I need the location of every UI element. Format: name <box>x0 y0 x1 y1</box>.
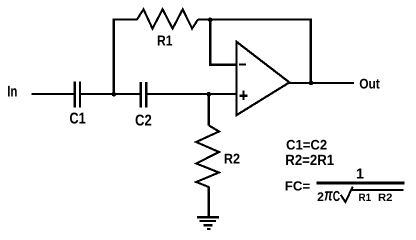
svg-text:C: C <box>333 189 341 205</box>
capacitor C1 <box>75 82 80 108</box>
wire C2 to op-amp + input <box>147 93 237 95</box>
fraction bar <box>317 182 405 185</box>
node A junction dot <box>112 92 117 97</box>
wire R2 to ground <box>208 187 210 218</box>
wire top rail right segment <box>198 19 312 21</box>
svg-text:2: 2 <box>317 190 324 204</box>
svg-text:In: In <box>7 83 17 100</box>
svg-text:FC=: FC= <box>285 179 311 194</box>
svg-text:R2=2R1: R2=2R1 <box>285 153 334 169</box>
svg-text:C2: C2 <box>135 112 152 129</box>
resistor R1 <box>137 9 198 28</box>
node D junction dot (output) <box>309 81 314 86</box>
wire into op-amp - input <box>209 64 236 66</box>
svg-text:C1=C2: C1=C2 <box>286 137 327 153</box>
op-amp U1 <box>236 42 289 115</box>
svg-text:Out: Out <box>359 77 380 93</box>
wire node C down to inverting input <box>209 20 211 65</box>
node B junction dot <box>207 92 212 97</box>
ground <box>197 217 219 229</box>
wire node A up to top rail <box>113 19 115 95</box>
op-amp inverting pin marker <box>239 63 246 65</box>
svg-text:R1: R1 <box>359 192 372 204</box>
svg-text:R2: R2 <box>224 151 240 167</box>
wire output <box>289 82 354 84</box>
op-amp non-inverting pin marker <box>239 91 247 100</box>
wire In to C1 <box>32 93 74 95</box>
capacitor C2 <box>141 82 146 107</box>
wire top rail left segment <box>113 19 138 21</box>
wire C1 to C2 <box>81 93 141 95</box>
svg-text:1: 1 <box>356 166 364 182</box>
wire node B down to R2 <box>208 94 210 126</box>
svg-text:R2: R2 <box>378 192 392 204</box>
node C junction dot <box>208 18 213 23</box>
svg-text:C1: C1 <box>69 110 86 127</box>
resistor R2 <box>196 125 219 187</box>
wire feedback right vertical <box>310 19 312 83</box>
svg-text:R1: R1 <box>157 33 173 49</box>
radical sign <box>341 187 404 203</box>
